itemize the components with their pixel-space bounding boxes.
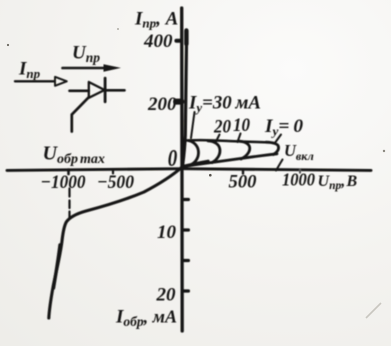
tick 15 mA [183, 259, 189, 262]
x-axis (Upr right / Uobr left) [7, 169, 371, 171]
svg-text:1000: 1000 [282, 170, 315, 190]
tick 200 A [176, 99, 181, 105]
svg-text:500: 500 [229, 172, 257, 193]
reverse branch curve (3rd quadrant, avalanche breakdown) [49, 168, 182, 319]
svg-text:Iпр, А: Iпр, А [134, 9, 178, 31]
leader line for 10 label [238, 134, 241, 143]
svg-text:Iу= 0: Iу= 0 [264, 116, 304, 139]
fold-back curve Iy=0 [266, 142, 279, 154]
tick -500 V [112, 170, 114, 174]
svg-text:−500: −500 [97, 172, 134, 193]
leader line for Iy=30mA label [191, 112, 195, 138]
svg-text:10: 10 [157, 222, 177, 243]
y-axis (Ipr up / Iobr down) [180, 8, 184, 331]
tick 20 mA [183, 289, 189, 292]
leader line for 20 label [216, 135, 220, 143]
tick 500 V [242, 169, 244, 173]
fold-back curve Iy=30mA [189, 141, 199, 165]
tick 5 mA [183, 198, 189, 201]
forward ON-state curve (steep, near y-axis) [183, 42, 187, 167]
svg-text:0: 0 [168, 146, 178, 172]
dashed line at -1000 V (Uobr max) [68, 189, 70, 219]
tick 10 mA [183, 228, 189, 231]
fold-back curve Iy=20mA [208, 141, 220, 163]
svg-text:400: 400 [143, 31, 173, 52]
svg-text:20: 20 [213, 117, 231, 138]
scan specks [7, 44, 9, 46]
tick -1000 V [67, 170, 70, 174]
thyristor gate lead [72, 97, 89, 131]
thyristor triangle [89, 82, 105, 98]
svg-text:20: 20 [156, 285, 177, 306]
ON-state curve top blob [184, 31, 188, 45]
tick 400 A [176, 39, 181, 43]
thyristor anode wire [70, 90, 89, 93]
tick 1000 V [299, 170, 301, 173]
svg-text:200: 200 [147, 94, 177, 115]
Ipr arrow (open head) [15, 80, 55, 82]
svg-text:−1000: −1000 [41, 172, 86, 193]
svg-text:10: 10 [233, 115, 250, 136]
thyristor cathode wire [105, 89, 124, 92]
top envelope of switching curves [186, 140, 267, 142]
leader line for Iy=0 label [275, 135, 282, 144]
off-state bottom line (fan from origin to breakover tips) [182, 154, 277, 167]
Upr arrow [63, 67, 105, 70]
extra off-state line near origin (dark wedge) [182, 161, 208, 166]
fold-back curve Iy=10mA [238, 141, 250, 159]
reverse curve steep overlay [54, 245, 61, 288]
thyristor cathode bar [104, 78, 107, 102]
leader line for Uvkl label [276, 160, 283, 171]
